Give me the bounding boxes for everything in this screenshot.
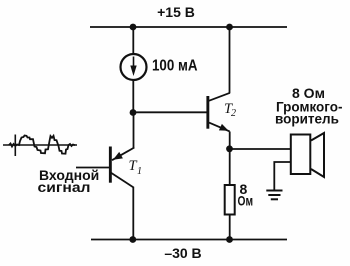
- transistor T2 (NPN) base bar: [206, 96, 209, 129]
- junction dot: rail / T1 collector: [129, 236, 136, 243]
- junction dot: output node: [226, 145, 233, 152]
- svg-text:+15 В: +15 В: [157, 4, 195, 20]
- junction dot: rail / T2 collector: [226, 24, 233, 31]
- current source arrow: [133, 57, 135, 69]
- svg-text:–30 В: –30 В: [164, 245, 201, 261]
- T1 emitter diagonal: [112, 148, 134, 161]
- svg-text:1: 1: [137, 166, 142, 177]
- input waveform vertical tick: [14, 135, 16, 157]
- T2 emitter diagonal: [209, 123, 230, 132]
- wire: output node to resistor: [229, 149, 231, 185]
- svg-text:воритель: воритель: [275, 112, 339, 127]
- svg-text:Ом: Ом: [238, 193, 254, 209]
- resistor R 8 Ом body: [225, 185, 235, 215]
- wire: T2 emitter to output node: [229, 132, 231, 150]
- input waveform signal: [9, 136, 75, 154]
- junction dot: rail / resistor: [226, 236, 233, 243]
- transistor T1 (PNP) base bar: [109, 147, 112, 183]
- wire: T2 collector to top rail: [229, 27, 231, 93]
- wire: current source to node: [132, 80, 134, 113]
- svg-text:2: 2: [231, 108, 236, 119]
- T1 emitter arrow (points into bar): [113, 152, 123, 160]
- wire: resistor to bottom rail: [229, 215, 231, 240]
- svg-text:сигнал: сигнал: [38, 179, 91, 195]
- input waveform axis: [3, 144, 77, 146]
- T1 collector diagonal: [111, 173, 134, 188]
- wire: speaker to ground: [274, 162, 291, 190]
- wire: T1 collector to bottom rail: [132, 187, 134, 240]
- junction dot: node (T1 emitter / T2 base): [130, 109, 137, 116]
- junction dot: rail / current source: [130, 24, 137, 31]
- wire: rail to current source: [132, 27, 134, 54]
- T2 collector diagonal: [209, 93, 230, 101]
- power rail +15 V: [90, 26, 287, 28]
- wire: node to T2 base: [133, 111, 207, 113]
- wire: node down to T1 emitter: [133, 113, 135, 149]
- svg-text:100 мА: 100 мА: [152, 58, 198, 75]
- T1 base wire: [76, 167, 110, 169]
- current source I1 circle: [121, 54, 147, 80]
- ground symbol: [266, 190, 282, 192]
- speaker body: [291, 135, 311, 175]
- T2 emitter arrow (points out): [219, 124, 229, 131]
- speaker horn: [311, 133, 324, 177]
- wire: output node to speaker: [230, 148, 291, 150]
- power rail -30 V: [91, 239, 287, 241]
